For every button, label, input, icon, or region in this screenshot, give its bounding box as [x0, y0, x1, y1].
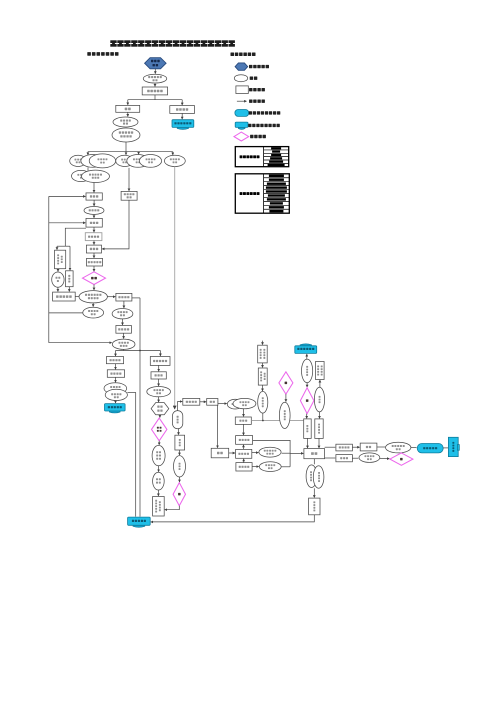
wire D1 to E9: [93, 285, 95, 291]
wire SE3 to diamond D5: [306, 383, 308, 387]
wire R18 to E22: [179, 450, 181, 455]
wire E19 to cyan capsule: [411, 447, 417, 449]
tall ellipse E15: [152, 445, 165, 465]
wire CP1 to R18: [178, 429, 180, 435]
process box R10R: [150, 357, 170, 366]
legend cyan stadium icon: [235, 110, 249, 117]
wire R9 to E11: [123, 333, 125, 338]
bottom bus wire to cyan bar: [151, 515, 314, 522]
wire E0b to fanout rail: [125, 142, 127, 152]
ellipse E18a: [259, 447, 281, 457]
tall ellipse SE4: [314, 387, 324, 412]
wire CP1 to R13: [178, 402, 183, 411]
split rail under E11: [123, 349, 125, 350]
arrow up from SE3 into CY3: [306, 354, 308, 359]
wire R11R to E14: [158, 379, 160, 386]
process box R1R: [170, 106, 195, 114]
wire BR to RB2: [325, 457, 336, 459]
decision diamond D5: [300, 388, 314, 414]
ellipse E2: [81, 155, 105, 168]
ellipse E13a: [104, 383, 127, 394]
cyan card CY2: [105, 404, 126, 413]
feedback arrow into R2: [49, 195, 86, 197]
tall ellipse SE3: [302, 359, 313, 383]
process box R5: [86, 245, 101, 253]
cyan capsule CC: [417, 444, 443, 453]
legend ellipse label: [250, 77, 258, 80]
diagram title text: [110, 40, 235, 46]
ellipse E0b: [112, 128, 140, 142]
wire E20 to diamond D6: [380, 458, 390, 460]
decision diamond D4: [279, 372, 293, 394]
legend ellipse icon: [234, 75, 247, 82]
left feedback bus: [48, 196, 50, 342]
tall box S2: [258, 368, 267, 385]
wire E12 to R9: [122, 319, 124, 325]
hexagon H2 (white): [151, 403, 169, 415]
gray-bordered box R4: [85, 233, 102, 241]
tall ellipse E16: [153, 472, 165, 490]
ellipse EB: [82, 170, 110, 182]
big process box BR: [304, 449, 325, 459]
wire S2 to SE1: [262, 385, 264, 391]
wire E13 to vertical bus: [127, 391, 135, 393]
ellipse E0: [143, 74, 167, 83]
wire E5 to RB: [128, 168, 130, 191]
wire R13 to R14: [200, 401, 206, 403]
process box RC: [360, 443, 377, 451]
legend hexagon icon: [235, 63, 248, 70]
wire R8 to right vertical bus: [132, 297, 140, 299]
tall box R17: [309, 498, 320, 515]
ellipse E18b: [259, 462, 281, 472]
wire D3 to R12: [165, 506, 180, 510]
legend rectangle icon: [236, 86, 248, 94]
process box RB2: [336, 455, 353, 462]
feedback arrow into R3: [49, 222, 86, 224]
legend arrow label: [249, 100, 265, 103]
tall box S3: [316, 362, 325, 380]
decision diamond D1: [83, 272, 106, 285]
wire H2 to diamond D2: [159, 415, 161, 418]
wire BR down to E21: [313, 459, 315, 465]
ellipse E12: [112, 309, 133, 319]
wire E15 to E16: [158, 466, 160, 472]
wire RB2 to E20: [352, 457, 358, 459]
legend arrow icon: [237, 100, 247, 102]
process box R9: [116, 326, 131, 334]
wire D4 to SE2: [285, 394, 287, 402]
tall ellipse SE2: [279, 402, 290, 428]
wire R4 to R5: [93, 241, 95, 245]
ellipse E3: [89, 154, 116, 168]
wire R14 to E17: [218, 403, 227, 405]
ellipse EL1: [52, 272, 64, 287]
wire E17 to row box r1: [243, 409, 245, 417]
process box R8: [116, 293, 132, 301]
wire E2 to second row pair: [87, 167, 89, 170]
wire r4 to r3 (up): [243, 459, 245, 463]
ellipse E20: [359, 453, 380, 463]
bracket wire from R3 to tall boxes: [65, 228, 86, 246]
wire B to R7: [68, 287, 70, 292]
decision diamond D6: [390, 453, 413, 465]
wire E8 to R3: [93, 214, 95, 217]
tall box B: [66, 271, 74, 287]
tall box T4b: [315, 419, 323, 439]
ellipse E4: [116, 155, 134, 166]
row box r3: [236, 449, 252, 458]
tall ellipse E22: [174, 456, 186, 477]
legend cyan card icon: [235, 122, 248, 129]
wire R10R to R11R: [158, 365, 160, 371]
wire EB to R2: [93, 183, 95, 193]
legend diamond icon: [234, 132, 249, 141]
legend rectangle label: [249, 88, 265, 91]
process box R11L: [107, 370, 124, 378]
legend hexagon label: [249, 65, 269, 68]
ellipse E11: [112, 339, 135, 349]
wire E13 to cyan card CY2: [115, 401, 117, 404]
ellipse E17b: [233, 398, 256, 408]
wire EL1 to R7: [57, 287, 59, 291]
ellipse E9: [79, 291, 107, 303]
process box RB: [121, 191, 137, 200]
ellipse EA: [72, 170, 91, 181]
junction dot: [139, 350, 141, 352]
arrow up from SE4 into S3: [319, 380, 321, 387]
process box R11R: [151, 372, 166, 379]
wire r3 to r2 (up): [243, 445, 245, 450]
ellipse E6: [139, 155, 161, 168]
process box R10L: [106, 357, 123, 364]
process box R13: [183, 398, 200, 405]
wire RC to E19: [377, 446, 385, 448]
wire E9 to E10: [92, 303, 94, 307]
wire R3 to R4: [93, 227, 95, 232]
wire E0 to R0: [154, 83, 156, 86]
process box R1L: [116, 105, 140, 112]
wire r2 around to big box: [253, 440, 291, 466]
ellipse E14: [147, 387, 171, 397]
wire D2 to E15: [158, 441, 160, 445]
wire r4 to E18b: [252, 466, 259, 468]
wire R15 to r3: [229, 452, 235, 454]
wire r3 to E18a: [252, 452, 258, 454]
wire A to EL1: [57, 269, 59, 272]
wire E22 to D3: [179, 477, 181, 482]
wire R10L to R11L: [115, 364, 117, 370]
wire R8 to E12: [123, 301, 125, 308]
wire R0 branch to R1L and R1R: [154, 95, 156, 100]
fanout rail: [88, 151, 173, 153]
cyan card CY3 (top tab): [295, 344, 317, 354]
wire R5 to R6: [93, 253, 95, 258]
row box r1: [235, 417, 251, 424]
process box R14: [207, 399, 218, 406]
process box R2: [86, 193, 102, 200]
tall box R18: [175, 435, 185, 450]
wire E14 to hexagon H2: [158, 397, 160, 402]
tall ellipse E21b: [313, 466, 324, 488]
tall box R12: [153, 497, 165, 517]
ellipse E13b: [105, 389, 127, 400]
cyan bar CY4: [128, 517, 151, 527]
wire R14 down to R15: [217, 405, 219, 448]
tall ellipse E21a: [306, 465, 317, 488]
wire RA to RC: [352, 446, 359, 448]
legend table 2 (node list): [235, 174, 289, 213]
legend cyan card label: [248, 124, 280, 127]
wire T4b to big box: [318, 438, 320, 448]
ellipse E17a: [227, 399, 243, 409]
wire E10 to feedback bus: [49, 312, 83, 314]
ellipse E5: [127, 155, 149, 168]
ellipse E7: [164, 155, 185, 166]
start hexagon H1: [145, 58, 167, 69]
cyan card CY1: [172, 120, 194, 130]
legend table 1 (control points): [235, 147, 288, 167]
decision diamond D2: [152, 418, 167, 441]
long gray wire from E7 to CP1: [174, 167, 176, 409]
wire BR to RA: [325, 446, 336, 448]
process box R0: [142, 87, 167, 95]
wire SE4 to T4b: [319, 412, 321, 418]
process box RA: [336, 444, 353, 451]
process box R15: [211, 448, 229, 458]
wire H1 to E0: [154, 69, 156, 74]
gray rail from r1 to tall box: [251, 420, 303, 422]
wire E21 to R17: [313, 488, 315, 497]
wire E18a to big box rail: [282, 452, 291, 454]
tall ellipse SE1: [258, 391, 268, 413]
section label 1 (left): [87, 52, 118, 56]
ellipse E19: [386, 442, 411, 453]
tall box S1: [258, 345, 268, 363]
arrow stub into S1: [262, 341, 264, 345]
wire R1R to cyan card CY1: [181, 113, 183, 119]
ellipse E8: [84, 206, 104, 214]
tall box A: [55, 250, 66, 269]
wire R11L to E13: [115, 377, 117, 382]
reject box R7: [53, 292, 76, 301]
wire E16 to R12: [157, 490, 159, 496]
wire SE1 down to gray rail: [262, 413, 264, 420]
tall box T4a: [304, 419, 312, 439]
legend cyan stadium label: [249, 111, 281, 114]
wire R6 to diamond D1: [93, 266, 95, 271]
process box R6: [87, 258, 103, 266]
wire S1 to S2: [262, 363, 264, 368]
wire R7 to E9: [75, 296, 79, 298]
wire E9 to R8: [107, 296, 115, 298]
wire capsule to cyan block: [443, 447, 448, 449]
process box R3: [86, 218, 102, 227]
legend diamond label: [250, 135, 266, 138]
wire r1 to r2: [243, 424, 245, 435]
cyan block CB: [448, 437, 459, 456]
vertical stadium CP1: [173, 411, 183, 429]
ellipse E1: [70, 155, 87, 166]
wire T4a to big box: [307, 438, 309, 448]
wire RB to R5 right side: [102, 200, 129, 249]
ellipse E0a: [113, 117, 138, 127]
wire R1L to E0a: [127, 112, 129, 116]
wire R2 to E8: [93, 200, 95, 206]
ellipse E10: [83, 307, 104, 318]
row box r2: [236, 436, 253, 445]
row box r4: [236, 463, 252, 471]
decision diamond D3: [173, 483, 185, 506]
section label 2 (legend header): [231, 53, 256, 57]
wire D5 to T4a: [306, 414, 308, 419]
junction dot on gray rail: [262, 420, 264, 422]
